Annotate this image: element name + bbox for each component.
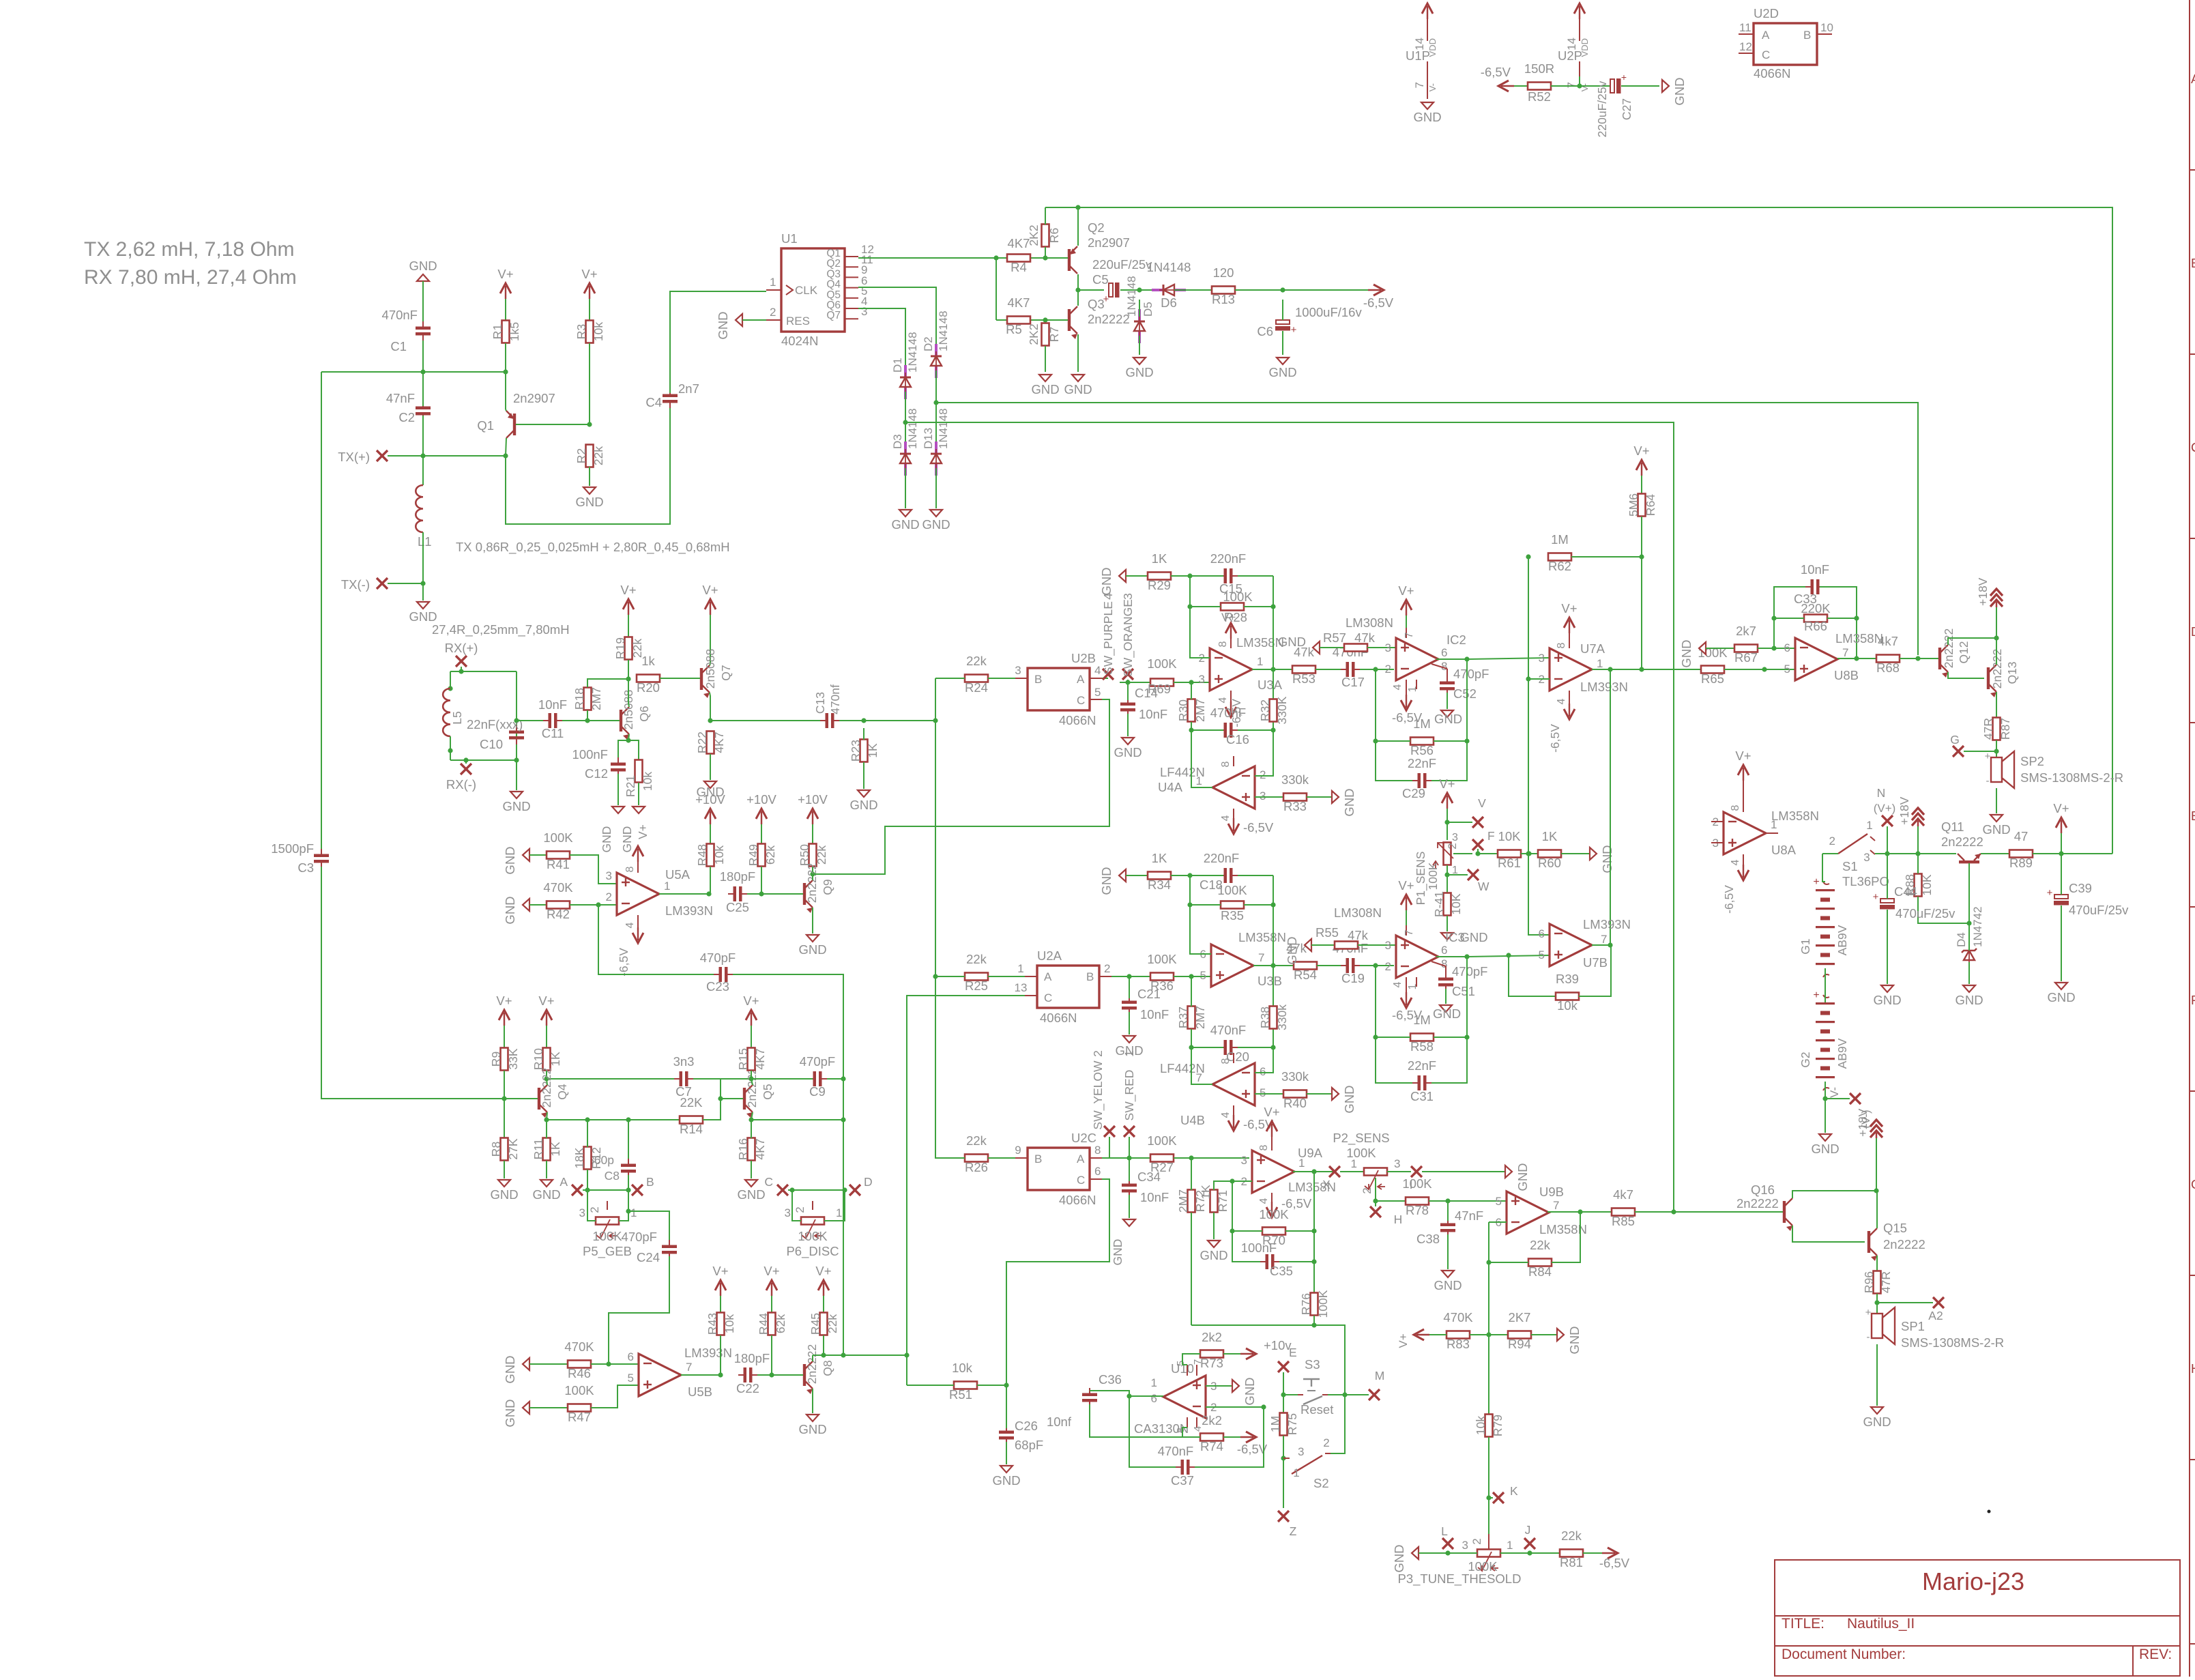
ground GND at R55 xyxy=(1305,939,1311,951)
svg-text:GND: GND xyxy=(490,1187,518,1202)
pin E net xyxy=(1278,1346,1297,1372)
wire xyxy=(1139,336,1140,355)
ground GND right of R33 xyxy=(1332,791,1339,803)
svg-text:Q5: Q5 xyxy=(761,1084,774,1099)
svg-text:D3: D3 xyxy=(891,434,904,449)
power symbol U1P xyxy=(1406,3,1442,124)
svg-text:A: A xyxy=(2191,72,2195,86)
junction xyxy=(1189,1045,1193,1049)
wire xyxy=(570,855,617,884)
resistor R51 xyxy=(949,1361,977,1402)
wire xyxy=(589,299,590,320)
svg-text:RX 7,80 mH, 27,4 Ohm: RX 7,80 mH, 27,4 Ohm xyxy=(84,266,297,289)
svg-text:P2_SENS: P2_SENS xyxy=(1333,1131,1389,1146)
svg-text:R47: R47 xyxy=(568,1410,591,1424)
junction xyxy=(1342,1392,1347,1397)
resistor R67 xyxy=(1734,624,1758,665)
svg-text:R-41: R-41 xyxy=(1432,891,1446,917)
svg-text:IC3: IC3 xyxy=(1445,930,1465,944)
junction xyxy=(1311,1169,1316,1174)
svg-text:2n2222: 2n2222 xyxy=(805,863,819,903)
pin SW_RED xyxy=(1122,1050,1137,1137)
op-amp U8A LM358N xyxy=(1711,809,1819,857)
svg-text:D6: D6 xyxy=(1161,295,1177,310)
wire xyxy=(1900,658,1938,659)
wire xyxy=(1917,854,1919,873)
resistor R66 xyxy=(1801,601,1831,633)
svg-text:AB9V: AB9V xyxy=(1835,925,1849,955)
svg-text:C22: C22 xyxy=(736,1381,759,1395)
svg-text:D5: D5 xyxy=(1142,302,1154,317)
svg-text:RX(+): RX(+) xyxy=(445,641,478,655)
svg-text:P5_GEB: P5_GEB xyxy=(583,1244,632,1259)
svg-text:6: 6 xyxy=(628,1350,634,1363)
transistor Q11 2n2222 xyxy=(1941,820,1983,863)
junction xyxy=(1578,1209,1582,1214)
wire xyxy=(529,1363,568,1365)
svg-text:GND: GND xyxy=(620,826,634,853)
svg-text:10k: 10k xyxy=(952,1361,973,1375)
svg-text:5: 5 xyxy=(1260,1086,1266,1099)
svg-text:-6,5V: -6,5V xyxy=(1599,1556,1630,1570)
svg-text:V+: V+ xyxy=(1735,749,1751,763)
svg-text:-6,5V: -6,5V xyxy=(1481,65,1511,79)
capacitor C31 22nF xyxy=(1408,1058,1436,1103)
svg-text:A2: A2 xyxy=(1928,1309,1943,1322)
ground GND at R29 xyxy=(1119,570,1126,582)
svg-text:2: 2 xyxy=(606,890,612,903)
svg-text:2: 2 xyxy=(1385,663,1391,676)
wire xyxy=(1127,680,1129,682)
svg-text:SW_YELOW: SW_YELOW xyxy=(1091,1060,1105,1130)
svg-text:LM358N: LM358N xyxy=(1771,809,1819,823)
svg-text:U4B: U4B xyxy=(1180,1113,1205,1127)
capacitor C1 xyxy=(382,308,431,353)
wire R73 to pins xyxy=(1182,1354,1200,1365)
svg-text:1M: 1M xyxy=(1268,1416,1282,1432)
wire xyxy=(321,867,532,1099)
ground GND below R41 xyxy=(1441,930,1488,944)
ground GND at R67 xyxy=(1699,642,1706,654)
svg-text:+10v: +10v xyxy=(1264,1338,1292,1352)
wire xyxy=(583,1189,628,1191)
svg-text:2M7: 2M7 xyxy=(1193,699,1207,722)
capacitor C15 220nF xyxy=(1210,551,1246,596)
wire xyxy=(1887,854,1888,899)
svg-text:R68: R68 xyxy=(1876,661,1900,675)
svg-text:SW_PURPLE: SW_PURPLE xyxy=(1101,601,1116,675)
resistor R4 xyxy=(1007,236,1030,274)
wire xyxy=(1171,875,1190,876)
wire xyxy=(659,893,709,895)
svg-text:+: + xyxy=(1291,324,1297,336)
op-amp U9B LM358N xyxy=(1496,1185,1587,1236)
ground GND xyxy=(1662,80,1669,92)
junction xyxy=(1526,851,1530,856)
wire xyxy=(1827,618,1857,619)
wire xyxy=(1445,989,1447,1004)
svg-text:V+: V+ xyxy=(743,994,759,1008)
wire xyxy=(1918,897,1969,923)
wire xyxy=(1521,853,1539,854)
svg-text:Q9: Q9 xyxy=(821,879,834,895)
junction xyxy=(1281,1392,1285,1397)
wire xyxy=(1876,1344,1878,1406)
svg-text:+10V: +10V xyxy=(798,792,828,807)
wire xyxy=(1045,207,1046,225)
wire xyxy=(1190,904,1221,906)
junction xyxy=(1189,1155,1193,1160)
junction xyxy=(903,420,907,424)
wire Q5 base xyxy=(721,1098,737,1099)
wire xyxy=(1724,669,1795,670)
junction xyxy=(1464,738,1469,743)
svg-text:TX(-): TX(-) xyxy=(341,577,370,592)
pin 8 stub IC3 xyxy=(1431,961,1446,978)
junction xyxy=(1771,615,1776,620)
wire xyxy=(1406,615,1407,638)
resistor R44 xyxy=(757,1313,787,1335)
svg-text:LM393N: LM393N xyxy=(1583,917,1631,931)
op-amp IC2 LM308N xyxy=(1385,633,1466,692)
svg-text:5: 5 xyxy=(1496,1195,1502,1208)
svg-text:-6,5V: -6,5V xyxy=(617,948,630,976)
junction xyxy=(1137,287,1142,292)
svg-text:GND: GND xyxy=(1064,382,1092,396)
wire xyxy=(1139,300,1140,317)
svg-text:GND: GND xyxy=(503,1399,517,1427)
wire Q12 emitter to Q13 xyxy=(1948,672,1984,678)
svg-text:Q7: Q7 xyxy=(719,665,733,680)
svg-text:IC2: IC2 xyxy=(1447,633,1466,647)
svg-text:R62: R62 xyxy=(1548,559,1571,573)
svg-text:D: D xyxy=(864,1175,873,1189)
svg-text:2k2: 2k2 xyxy=(1202,1330,1222,1344)
wire xyxy=(792,1190,801,1221)
wire xyxy=(1489,1262,1528,1263)
svg-text:R23: R23 xyxy=(849,740,862,762)
capacitor C36 10nf xyxy=(1047,1372,1122,1429)
resistor R87 xyxy=(1981,718,2012,740)
svg-text:GND: GND xyxy=(600,826,613,853)
svg-text:22k: 22k xyxy=(826,1314,839,1333)
transistor Q12 2n2222 xyxy=(1938,628,1971,678)
resistor R61 xyxy=(1498,829,1521,870)
wire xyxy=(1887,910,1888,984)
pin G xyxy=(1950,733,1964,757)
svg-text:1: 1 xyxy=(836,1206,842,1219)
op-amp U3A LM358N xyxy=(1199,635,1284,692)
svg-text:R33: R33 xyxy=(1283,799,1307,813)
svg-text:L: L xyxy=(1441,1524,1448,1538)
pin 1 stub IC3 xyxy=(1416,977,1417,987)
resistor R73 xyxy=(1200,1330,1223,1370)
wire tank bottom xyxy=(450,759,517,761)
wire xyxy=(1191,976,1192,1006)
svg-text:5: 5 xyxy=(1200,969,1206,982)
junction xyxy=(1577,83,1582,88)
wire fb left column U3B xyxy=(1190,875,1211,954)
wire xyxy=(1129,1158,1130,1181)
wire C23 to C9 column xyxy=(733,974,843,1355)
resistor R23 xyxy=(849,740,880,762)
wire xyxy=(757,1374,800,1376)
svg-text:10nF: 10nF xyxy=(1140,1190,1169,1204)
svg-text:100nF: 100nF xyxy=(1241,1241,1277,1255)
wire U7A out row xyxy=(1592,669,1702,670)
resistor R76 xyxy=(1299,1290,1330,1318)
svg-text:+18V: +18V xyxy=(1976,577,1990,606)
battery G2 AB9V xyxy=(1799,989,1849,1090)
svg-text:1: 1 xyxy=(630,1206,637,1219)
junction xyxy=(718,1096,723,1101)
junction xyxy=(626,738,630,742)
svg-text:9: 9 xyxy=(1015,1144,1021,1157)
svg-text:8: 8 xyxy=(1730,805,1741,811)
junction xyxy=(1280,287,1285,292)
pin Z net xyxy=(1278,1511,1297,1538)
junction xyxy=(718,1372,723,1377)
svg-text:GND: GND xyxy=(1434,1278,1462,1292)
svg-text:V+: V+ xyxy=(538,994,554,1008)
svg-text:100nF: 100nF xyxy=(572,747,608,762)
junction xyxy=(1373,1034,1378,1039)
svg-text:R1: R1 xyxy=(491,324,504,339)
svg-text:8: 8 xyxy=(1094,1144,1101,1157)
wire xyxy=(1255,796,1283,798)
supply +18V above S1 node xyxy=(1912,808,1924,815)
ground GND below R7 xyxy=(1039,375,1051,381)
svg-text:1500pF: 1500pF xyxy=(271,841,314,856)
svg-text:Q2: Q2 xyxy=(1088,220,1105,235)
wire R62 R64 column xyxy=(1528,557,1550,935)
svg-text:R57: R57 xyxy=(1323,631,1346,645)
wire Q8 collector row xyxy=(813,1355,907,1356)
op-amp U5B LM393N xyxy=(628,1346,732,1399)
svg-text:4: 4 xyxy=(1217,697,1229,703)
junction xyxy=(1043,317,1047,322)
svg-text:3: 3 xyxy=(1260,790,1266,802)
svg-text:1M: 1M xyxy=(1551,532,1569,547)
capacitor C52 470pF xyxy=(1440,667,1489,701)
svg-text:10k: 10k xyxy=(712,845,726,865)
ground GND below D4 xyxy=(1963,985,1975,992)
ground GND right R94 xyxy=(1557,1329,1564,1341)
ground GND at R34 xyxy=(1119,869,1126,882)
ground GND below R16 xyxy=(745,1180,757,1187)
svg-text:330k: 330k xyxy=(1281,772,1309,787)
wire xyxy=(670,291,766,393)
wire xyxy=(1358,944,1396,946)
op-amp U4A LF442N xyxy=(1158,765,1266,809)
junction xyxy=(1445,1550,1450,1555)
resistor R78 xyxy=(1402,1176,1432,1217)
wire xyxy=(1109,1137,1110,1158)
ground GND right U10 pin3 xyxy=(1232,1380,1239,1392)
ground GND below SP1 xyxy=(1871,1407,1883,1414)
wire U4B pin6 xyxy=(1255,1047,1273,1073)
wire xyxy=(1066,319,1068,321)
wire xyxy=(516,760,517,790)
svg-text:R18: R18 xyxy=(572,688,586,710)
svg-text:C2: C2 xyxy=(398,410,415,424)
svg-text:R26: R26 xyxy=(965,1160,988,1174)
pin J net xyxy=(1524,1523,1535,1549)
wire xyxy=(1825,1098,1850,1099)
wire xyxy=(1223,1353,1240,1355)
pin RX(+) xyxy=(445,641,478,667)
junction xyxy=(759,891,764,896)
wire xyxy=(1918,853,1956,854)
wire xyxy=(1235,289,1368,291)
junction xyxy=(748,1117,753,1122)
resistor R50 xyxy=(798,844,828,867)
op-amp U10 CA3130N xyxy=(1134,1361,1217,1436)
junction xyxy=(1771,646,1776,650)
wire xyxy=(935,678,965,679)
svg-text:1: 1 xyxy=(1293,1466,1299,1479)
wire xyxy=(1635,1211,1783,1213)
supply V+ above R1 xyxy=(505,286,506,299)
resistor R54 xyxy=(1286,941,1317,982)
resistor R14 xyxy=(680,1095,703,1136)
junction xyxy=(841,1352,845,1357)
svg-text:100K: 100K xyxy=(564,1383,594,1397)
wire xyxy=(812,1389,813,1413)
svg-text:SMS-1308MS-2-R: SMS-1308MS-2-R xyxy=(2020,770,2123,785)
op-amp U9A LM358N xyxy=(1241,1146,1336,1194)
svg-text:D2: D2 xyxy=(922,336,935,351)
svg-text:1N4148: 1N4148 xyxy=(937,310,950,351)
pin B xyxy=(632,1175,654,1196)
wire xyxy=(1876,1138,1877,1191)
junction xyxy=(1373,963,1378,968)
switch S1 TL36PO xyxy=(1829,819,1889,888)
svg-text:S1: S1 xyxy=(1842,859,1858,873)
wire xyxy=(505,372,506,409)
supply V+ above R89 node xyxy=(2061,820,2062,833)
svg-text:2n2222: 2n2222 xyxy=(1883,1237,1925,1251)
svg-text:150R: 150R xyxy=(1524,61,1554,76)
svg-text:(V+): (V+) xyxy=(1874,802,1896,815)
svg-text:7: 7 xyxy=(1404,632,1415,638)
svg-text:R83: R83 xyxy=(1447,1337,1470,1351)
wire xyxy=(771,1296,772,1313)
wire xyxy=(1820,587,1857,618)
svg-text:470K: 470K xyxy=(564,1339,594,1354)
wire tank top xyxy=(450,671,517,672)
wire xyxy=(1470,1334,1508,1335)
svg-text:470K: 470K xyxy=(543,880,573,895)
svg-text:B: B xyxy=(646,1175,654,1189)
svg-text:Q12: Q12 xyxy=(1957,641,1971,663)
svg-text:1N4148: 1N4148 xyxy=(906,332,919,373)
svg-text:1K: 1K xyxy=(1152,551,1167,566)
resistor R15 xyxy=(736,1048,767,1071)
svg-text:100K: 100K xyxy=(1147,1133,1177,1148)
svg-text:+18V: +18V xyxy=(1856,1108,1870,1137)
svg-text:47k: 47k xyxy=(1348,928,1369,942)
junction xyxy=(1527,1550,1532,1555)
wire U2C pin6 to R51 xyxy=(1006,1179,1109,1385)
resistor R12 xyxy=(572,1147,603,1170)
svg-text:100K: 100K xyxy=(592,1229,622,1243)
resistor R56 xyxy=(1410,716,1434,757)
wire xyxy=(2061,854,2062,895)
wire fb right column U3A xyxy=(1273,576,1274,730)
wire xyxy=(1077,274,1079,306)
svg-text:V+: V+ xyxy=(497,267,513,281)
wire xyxy=(1877,1302,1933,1303)
junction xyxy=(626,1208,630,1213)
ground GND at R46 xyxy=(523,1358,529,1370)
svg-text:A: A xyxy=(1762,29,1770,42)
svg-text:3: 3 xyxy=(1199,673,1205,686)
svg-text:LM358N: LM358N xyxy=(1835,631,1883,646)
diode D4 zener 1N4742 xyxy=(1955,906,1984,965)
junction xyxy=(1270,667,1275,671)
svg-text:Mario-j23: Mario-j23 xyxy=(1922,1567,2024,1595)
wire xyxy=(1311,944,1335,946)
svg-text:X: X xyxy=(1322,1178,1331,1191)
svg-text:13: 13 xyxy=(1015,981,1028,994)
svg-text:10K: 10K xyxy=(1498,829,1522,843)
speaker SP2 xyxy=(1985,751,2124,788)
wire xyxy=(546,1161,547,1178)
svg-text:R60: R60 xyxy=(1538,856,1561,870)
junction xyxy=(1125,680,1130,684)
svg-text:47nF: 47nF xyxy=(1455,1208,1483,1223)
svg-text:2n2222: 2n2222 xyxy=(1088,312,1130,326)
svg-text:G: G xyxy=(2191,1177,2195,1191)
wire R79 column xyxy=(1488,1335,1489,1415)
wire xyxy=(1126,875,1148,876)
wire xyxy=(1406,910,1407,936)
svg-text:U5B: U5B xyxy=(688,1385,712,1399)
potentiometer P3_TUNE_THESOLD xyxy=(1398,1534,1522,1587)
svg-text:1M: 1M xyxy=(1413,716,1431,731)
junction xyxy=(626,676,630,681)
junction xyxy=(933,974,937,979)
svg-text:5: 5 xyxy=(1784,663,1790,676)
svg-text:GND: GND xyxy=(1031,382,1059,396)
transistor Q16 2n2222 xyxy=(1736,1183,1792,1231)
junction xyxy=(1126,974,1131,979)
resistor R49 xyxy=(746,844,777,867)
supply +10V above R50 xyxy=(812,811,813,824)
svg-text:470nF: 470nF xyxy=(382,308,418,322)
pin F xyxy=(1472,829,1495,850)
svg-text:G: G xyxy=(1950,733,1960,747)
svg-text:V+: V+ xyxy=(712,1264,728,1278)
wire xyxy=(2061,906,2062,981)
wire xyxy=(1706,648,1734,649)
pin 7 stub IC3 xyxy=(1404,925,1415,936)
supply V+ above R15 xyxy=(751,1013,752,1026)
svg-text:F: F xyxy=(1487,829,1495,843)
wire IC2 out xyxy=(1436,658,1467,660)
junction xyxy=(585,718,590,723)
svg-text:S2: S2 xyxy=(1313,1476,1329,1490)
svg-text:4: 4 xyxy=(624,922,636,928)
supply -6,5V below U4B xyxy=(1228,1115,1274,1131)
svg-text:8: 8 xyxy=(1220,1058,1232,1064)
wire xyxy=(617,774,619,805)
ground GND below SP2 xyxy=(1990,815,2003,822)
wire xyxy=(1171,575,1190,577)
wire xyxy=(1552,1212,1580,1262)
svg-text:C26: C26 xyxy=(1015,1419,1038,1433)
